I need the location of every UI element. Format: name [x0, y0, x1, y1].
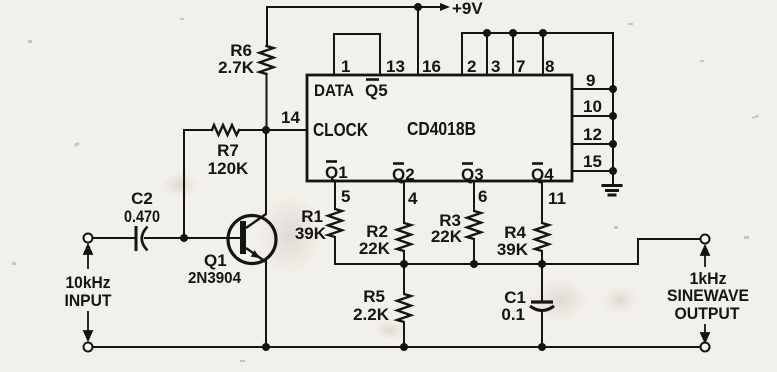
wire R5 top [403, 264, 405, 294]
svg-text:22K: 22K [431, 227, 463, 246]
svg-text:14: 14 [281, 108, 300, 127]
svg-text:CD4018B: CD4018B [407, 119, 476, 139]
svg-text:39K: 39K [295, 224, 327, 243]
resistor R6 [260, 46, 274, 74]
wire pin 11 [541, 181, 543, 223]
svg-text:Q4: Q4 [531, 165, 554, 184]
resistor R7 [212, 125, 239, 135]
svg-text:8: 8 [545, 57, 554, 76]
svg-text:13: 13 [386, 57, 405, 76]
node pin12 [609, 140, 617, 148]
input terminal bottom [84, 343, 93, 352]
resistor R2 [397, 223, 411, 251]
svg-text:0.1: 0.1 [501, 305, 525, 324]
svg-text:9: 9 [586, 71, 595, 90]
input range arrows [84, 245, 92, 340]
svg-text:1: 1 [341, 57, 350, 76]
svg-text:39K: 39K [497, 240, 529, 259]
svg-text:0.470: 0.470 [124, 207, 160, 226]
input terminal top [84, 234, 93, 243]
wire pin 5 [334, 181, 336, 209]
node bus pin3 [483, 29, 491, 37]
wire pin 4 [403, 181, 405, 223]
svg-text:10: 10 [583, 97, 602, 116]
wire bus pins 2,3,7,8 [462, 33, 613, 75]
capacitor C2 [136, 226, 148, 251]
svg-text:Q3: Q3 [461, 165, 484, 184]
svg-text:2N3904: 2N3904 [188, 270, 241, 287]
wire node to pin 14 [266, 129, 307, 131]
wire pin 9 [572, 88, 613, 90]
svg-text:INPUT: INPUT [65, 291, 113, 310]
svg-text:16: 16 [422, 57, 441, 76]
wire C2 to base node [145, 237, 184, 239]
svg-text:SINEWAVE: SINEWAVE [667, 286, 749, 305]
transistor Q1 [228, 214, 276, 264]
wire jumper pin1 to pin13 [334, 34, 380, 75]
wire bottom rail [88, 346, 705, 348]
svg-text:4: 4 [408, 189, 418, 208]
node C1 rail [538, 343, 546, 351]
wire pin 8 [542, 33, 544, 75]
wire pin 12 [572, 143, 613, 145]
wire C1 top [541, 264, 543, 301]
svg-text:Q5: Q5 [365, 81, 388, 100]
svg-text:2: 2 [467, 57, 476, 76]
svg-text:22K: 22K [359, 239, 391, 258]
svg-text:Q2: Q2 [392, 165, 415, 184]
wire R5 bottom [403, 322, 405, 347]
wire pin 15 [572, 170, 613, 172]
node R2 top of line [400, 260, 408, 268]
svg-text:DATA: DATA [314, 81, 354, 100]
node R4 C1 [538, 260, 546, 268]
wire base [184, 237, 240, 239]
svg-text:R5: R5 [363, 287, 385, 306]
node base [180, 234, 188, 242]
output terminal top [701, 235, 710, 244]
wire C1 bottom [541, 310, 543, 347]
resistor R1 [328, 209, 342, 237]
output range arrows [701, 246, 709, 342]
node pin10 [609, 112, 617, 120]
svg-text:120K: 120K [208, 159, 249, 178]
svg-text:7: 7 [516, 57, 525, 76]
wire R1 bottom [334, 237, 336, 264]
wire pin 3 [486, 33, 488, 75]
svg-text:CLOCK: CLOCK [313, 120, 368, 140]
wire summing node line [335, 263, 638, 265]
scan smudges (decorative) [258, 193, 322, 277]
wire R3 bottom [473, 239, 475, 264]
svg-text:2.2K: 2.2K [353, 305, 390, 324]
wire output riser [638, 239, 701, 264]
node clock [262, 126, 270, 134]
wire pin 6 [473, 181, 475, 211]
wire collector [265, 130, 267, 214]
resistor R4 [535, 223, 549, 251]
svg-text:Q1: Q1 [325, 163, 348, 182]
output terminal bottom [701, 343, 710, 352]
svg-text:6: 6 [478, 187, 487, 206]
wire pin 10 [572, 115, 613, 117]
svg-text:5: 5 [341, 187, 350, 206]
wire +9V arrow shaft [418, 6, 442, 8]
node emitter rail [262, 343, 270, 351]
node pin15 [609, 167, 617, 175]
resistor R3 [467, 211, 481, 239]
wire R4 bottom [541, 251, 543, 264]
wire input lower terminal [88, 346, 92, 348]
svg-text:Q1: Q1 [204, 251, 227, 270]
svg-text:3: 3 [491, 57, 500, 76]
+9V arrow head [440, 3, 450, 11]
wire C2 node down from R7 [183, 130, 185, 238]
svg-text:OUTPUT: OUTPUT [675, 304, 741, 323]
wire input to C2 [92, 237, 136, 239]
svg-text:11: 11 [548, 189, 566, 208]
wire right bus vertical [612, 33, 614, 184]
svg-text:10kHz: 10kHz [66, 273, 111, 292]
capacitor C1 [530, 302, 554, 311]
node R3 line [470, 260, 478, 268]
svg-text:R7: R7 [217, 141, 239, 160]
svg-text:C2: C2 [131, 189, 153, 208]
ground [602, 186, 623, 196]
node junction dots [180, 3, 617, 351]
wire R6 top [266, 7, 268, 45]
svg-text:2.7K: 2.7K [218, 58, 255, 77]
wire +9V top rail [267, 6, 418, 8]
node bus pin7 [509, 29, 517, 37]
wire pin 16 supply [417, 7, 419, 75]
wire R7 left [184, 129, 212, 131]
IC U1 CD4018B body [307, 75, 572, 181]
wire R2 bottom [403, 251, 405, 264]
svg-text:12: 12 [583, 125, 602, 144]
node bus pin8 [539, 29, 547, 37]
node +9V junction [414, 3, 422, 11]
node R5 rail [400, 343, 408, 351]
node pin9 [609, 85, 617, 93]
wire pin 7 [512, 33, 514, 75]
wire R6 bottom to node [266, 74, 268, 130]
wire emitter to bottom rail [265, 260, 267, 347]
wire R7 right to node [239, 129, 266, 131]
svg-text:+9V: +9V [452, 0, 483, 18]
resistor R5 [397, 294, 411, 322]
svg-text:15: 15 [583, 152, 602, 171]
